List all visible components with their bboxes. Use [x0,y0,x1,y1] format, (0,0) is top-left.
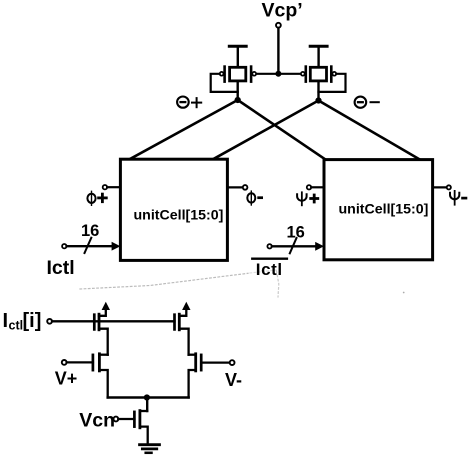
svg-text:16: 16 [81,222,99,240]
svg-text:Ictl: Ictl [47,257,75,279]
svg-text:16: 16 [287,224,305,242]
svg-text:Vcp’: Vcp’ [262,0,303,22]
svg-text:ctl: ctl [9,319,24,333]
svg-text:I: I [3,310,9,332]
svg-text:Vcn: Vcn [79,409,115,431]
svg-text:V-: V- [225,370,242,390]
svg-text:V+: V+ [55,369,78,389]
svg-text:Ictl: Ictl [256,260,283,279]
svg-text:unitCell[15:0]: unitCell[15:0] [134,208,224,224]
svg-text:unitCell[15:0]: unitCell[15:0] [339,202,429,218]
svg-text:[i]: [i] [23,310,42,332]
